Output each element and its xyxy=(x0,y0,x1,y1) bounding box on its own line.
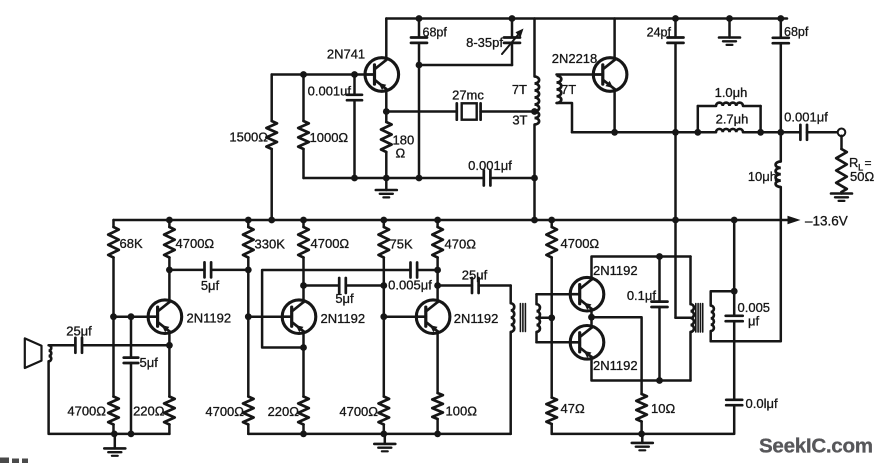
node: gnd wire 5uf xyxy=(128,431,135,438)
capacitor 0.01uf xyxy=(726,341,778,411)
capacitor 68pf left xyxy=(411,19,447,179)
capacitor 0.001uf output xyxy=(784,110,838,140)
svg-text:470Ω: 470Ω xyxy=(445,237,477,252)
capacitor 0.1uf xyxy=(627,257,668,381)
capacitor 25uf mic xyxy=(49,324,170,353)
transformer T1 core xyxy=(520,304,525,332)
svg-text:5μf: 5μf xyxy=(201,278,220,293)
svg-text:Ω: Ω xyxy=(396,146,406,161)
inductor 10uh xyxy=(748,132,781,187)
transistor Q2 2N1192 xyxy=(282,300,365,334)
capacitor 5uf shunt xyxy=(124,317,158,434)
capacitor 68pf right xyxy=(773,19,809,133)
node: gnd wire 10ohm xyxy=(638,431,645,438)
wire: Q1 emitter xyxy=(168,333,171,345)
svg-text:4700Ω: 4700Ω xyxy=(67,404,106,419)
resistor 4700 bottom3 xyxy=(339,397,389,434)
svg-text:4700Ω: 4700Ω xyxy=(561,236,600,251)
svg-text:10Ω: 10Ω xyxy=(651,401,675,416)
resistor 47 xyxy=(546,398,585,434)
capacitor 24pf xyxy=(647,19,684,133)
svg-text:R: R xyxy=(849,155,858,170)
capacitor 5uf coupling A xyxy=(169,262,248,293)
capacitor 0.005uf nfb xyxy=(388,263,437,293)
wire: x675 feed to T2 center tap xyxy=(676,132,691,317)
resistor 4700 bottom2 xyxy=(205,397,253,434)
svg-text:SeekIC.com: SeekIC.com xyxy=(759,435,873,458)
svg-text:27mc: 27mc xyxy=(452,88,484,103)
transformer T2 secondary xyxy=(711,291,735,341)
node: 0.1uf top xyxy=(656,253,663,260)
svg-text:75K: 75K xyxy=(390,237,413,252)
wire: bias column lower xyxy=(550,318,553,398)
wire: right ground bus xyxy=(552,406,735,434)
resistor 4700 collector1 xyxy=(164,220,214,270)
wire: Q4 emitter xyxy=(590,311,593,318)
svg-text:2N1192: 2N1192 xyxy=(593,358,638,373)
wire: T1 bottom to Q5 base xyxy=(537,341,571,344)
node: inductor pair left xyxy=(694,129,701,136)
wire: T1 center tap xyxy=(537,317,552,320)
node: base junction 0.001uf xyxy=(351,71,358,78)
microphone xyxy=(25,338,51,368)
resistor RL 50ohm xyxy=(836,136,874,192)
crystal 27mc xyxy=(386,88,534,120)
power arrow -13.6V xyxy=(788,214,848,229)
ground left xyxy=(104,434,125,456)
resistor 330K xyxy=(243,220,285,270)
svg-text:10μh: 10μh xyxy=(748,169,777,184)
node: Q1 collector junction xyxy=(166,267,173,274)
svg-text:=: = xyxy=(865,156,872,170)
resistor 220 emitter1 xyxy=(133,397,175,434)
inductor 2.7uh xyxy=(716,112,749,133)
wire: Q3 collector upper xyxy=(436,270,439,286)
wire: Q2 collector xyxy=(302,286,305,301)
node: Q3 collector 0.005 junction xyxy=(434,267,441,274)
node: push-pull midpoint xyxy=(588,314,595,321)
wire: Q5 collector xyxy=(590,317,593,326)
capacitor 5uf coupling B xyxy=(304,278,384,306)
wire: 2N741 emitter xyxy=(385,91,388,112)
node: y178 at 0.001uf xyxy=(351,175,358,182)
wire: Q2 emitter xyxy=(302,333,305,347)
node: 68pf bottom junction xyxy=(416,62,423,69)
svg-text:2N1192: 2N1192 xyxy=(321,311,366,326)
resistor 470 xyxy=(432,220,476,270)
wire: modulation column upper xyxy=(733,220,736,291)
svg-text:–13.6V: –13.6V xyxy=(805,214,848,229)
inductor osc secondary 7T xyxy=(557,76,577,103)
node: bias tap junction xyxy=(548,314,555,321)
wire: y132 line xyxy=(572,131,800,134)
transistor Q5 2N1192 xyxy=(570,326,637,374)
wire: 10uh down to T2 xyxy=(711,187,781,341)
svg-text:2N1192: 2N1192 xyxy=(593,263,638,278)
resistor 1500ohm xyxy=(229,75,277,221)
wire: Q2 emitter lower xyxy=(302,348,305,397)
wire: Q5 emitter xyxy=(592,359,691,381)
wire: Q4 collector xyxy=(592,257,691,278)
wire: -13.6V rail xyxy=(114,219,790,222)
node: rail junction 1500 xyxy=(268,217,275,224)
svg-text:0.005μf: 0.005μf xyxy=(388,278,432,293)
watermark SeekIC.com xyxy=(759,435,873,458)
node: 68pf right bottom xyxy=(777,129,784,136)
svg-text:4700Ω: 4700Ω xyxy=(311,236,350,251)
svg-text:2N2218: 2N2218 xyxy=(552,51,598,66)
svg-text:68pf: 68pf xyxy=(784,25,809,39)
inductor 1.0uh xyxy=(698,85,761,132)
wire: 2N2218 collector xyxy=(613,19,616,59)
caption fragment bottom-left xyxy=(0,458,28,463)
node: rail junction x675 xyxy=(672,217,679,224)
wire: mid ground bus xyxy=(248,433,510,436)
wire: 2N741 collector xyxy=(385,19,388,59)
ground mid xyxy=(374,434,395,451)
svg-text:4700Ω: 4700Ω xyxy=(205,404,244,419)
node: output terminal xyxy=(838,129,846,137)
svg-text:50Ω: 50Ω xyxy=(850,169,874,184)
ground RL xyxy=(831,192,852,201)
svg-text:0.001uf: 0.001uf xyxy=(308,84,352,99)
wire: 330K column xyxy=(247,270,250,317)
svg-text:7T: 7T xyxy=(512,82,527,97)
resistor 100 emitter3 xyxy=(432,393,477,434)
svg-text:25μf: 25μf xyxy=(462,268,488,283)
inductor osc primary 3T xyxy=(512,112,539,179)
transformer T1 primary xyxy=(511,286,515,434)
node: y178 at 68pf column xyxy=(416,175,423,182)
node: emitter on y132 xyxy=(611,129,618,136)
wire: nfb loop xyxy=(262,270,410,348)
resistor 75K xyxy=(379,220,413,286)
node: rail junction coil xyxy=(531,217,538,224)
wire: Q1 base xyxy=(114,315,149,318)
ground top xyxy=(719,19,740,45)
node: 0.1uf bottom xyxy=(656,377,663,384)
svg-text:220Ω: 220Ω xyxy=(268,404,300,419)
svg-text:2N1192: 2N1192 xyxy=(187,311,232,326)
capacitor 8-35pf variable xyxy=(466,19,523,66)
node: rail junction at top ground xyxy=(726,15,733,22)
resistor 180ohm xyxy=(381,112,414,179)
svg-text:330K: 330K xyxy=(255,237,286,252)
svg-text:5μf: 5μf xyxy=(335,291,354,306)
transformer T1 secondary xyxy=(537,294,540,342)
node: rail junction at 8-35pf xyxy=(509,15,516,22)
svg-text:2N1192: 2N1192 xyxy=(454,311,499,326)
svg-text:μf: μf xyxy=(748,314,759,329)
capacitor 25uf coupling xyxy=(438,268,511,294)
capacitor 0.005uf output xyxy=(726,291,770,341)
svg-text:24pf: 24pf xyxy=(647,26,672,40)
svg-text:0.1μf: 0.1μf xyxy=(627,288,657,303)
svg-text:4700Ω: 4700Ω xyxy=(176,236,215,251)
wire: mic ground lead xyxy=(49,361,170,434)
wire: Q3 collector xyxy=(436,286,439,301)
wire: top ground rail xyxy=(386,17,787,20)
node: rail junction mod xyxy=(731,217,738,224)
wire: secondary bottom jog xyxy=(557,103,573,132)
resistor 10 xyxy=(636,394,675,434)
node: 24pf bottom xyxy=(672,129,679,136)
node: emitter junction xyxy=(383,108,390,115)
node: gnd wire 75K xyxy=(380,431,387,438)
wire: 2N2218 base xyxy=(557,73,594,76)
svg-text:0.0lμf: 0.0lμf xyxy=(746,396,778,411)
node: gnd wire Q2e xyxy=(300,431,307,438)
svg-text:68K: 68K xyxy=(120,236,143,251)
wire: Q1 collector xyxy=(168,270,171,300)
svg-text:100Ω: 100Ω xyxy=(446,404,478,419)
node: rail junction 4700b xyxy=(300,217,307,224)
wire: Q3 base xyxy=(384,315,417,318)
svg-text:25μf: 25μf xyxy=(66,324,92,339)
node: T2 secondary top junction xyxy=(731,288,738,295)
transistor 2N2218 xyxy=(552,51,627,91)
wire: T1 top to Q4 base xyxy=(537,293,571,296)
wire: 2N2218 emitter xyxy=(613,91,616,132)
node: rail junction 75K xyxy=(380,217,387,224)
resistor 4700 collector2 xyxy=(298,220,349,286)
node: inductor pair right xyxy=(757,129,764,136)
resistor 220 emitter2 xyxy=(268,397,309,434)
transistor 2N741 xyxy=(327,47,399,92)
resistor 4700 bottom1 xyxy=(67,397,118,434)
node: rail junction 330K xyxy=(245,217,252,224)
node: 68K base junction xyxy=(110,313,117,320)
node: rail junction 4700 xyxy=(166,217,173,224)
node: Q3 collector 25uf junction xyxy=(434,282,441,289)
svg-text:5μf: 5μf xyxy=(140,355,159,370)
capacitor 0.001uf xyxy=(308,75,362,179)
svg-text:3T: 3T xyxy=(512,113,527,128)
wire: coil column to rail xyxy=(533,178,536,220)
node: Q2 collector junction xyxy=(300,282,307,289)
node: 5uf shunt top xyxy=(128,313,135,320)
transformer T2 core xyxy=(696,304,703,333)
ground under 180ohm xyxy=(376,178,397,197)
wire: 2N741 base line xyxy=(272,73,365,76)
svg-text:2N741: 2N741 xyxy=(327,47,365,62)
node: rail junction 470 xyxy=(434,217,441,224)
svg-text:8-35pf: 8-35pf xyxy=(466,35,503,50)
node: rail junction at right 68pf xyxy=(777,15,784,22)
transistor Q4 2N1192 xyxy=(570,263,637,311)
svg-text:4700Ω: 4700Ω xyxy=(339,404,378,419)
wire: midpoint to 10ohm xyxy=(592,317,642,394)
node: Q1 emitter mic junction xyxy=(166,342,173,349)
wire: Q2 base xyxy=(248,315,282,318)
svg-text:0.001μf: 0.001μf xyxy=(784,110,828,125)
node: rail junction 4700c xyxy=(548,217,555,224)
node: 75K 5uf junction xyxy=(380,282,387,289)
transformer T2 primary xyxy=(691,257,694,381)
transistor Q1 2N1192 xyxy=(148,300,231,334)
node: rail junction at 24pf xyxy=(672,15,679,22)
inductor osc primary 7T xyxy=(512,19,539,112)
wire: Q1 emitter lower xyxy=(168,345,171,396)
svg-text:1500Ω: 1500Ω xyxy=(229,130,268,145)
svg-text:1.0μh: 1.0μh xyxy=(715,85,748,100)
resistor 1000ohm xyxy=(298,75,348,179)
node: y178 at 180ohm xyxy=(383,175,390,182)
node: Q2 base junction xyxy=(245,313,252,320)
capacitor 0.001uf feedback xyxy=(468,158,512,186)
node: Q3 base junction xyxy=(380,313,387,320)
node: rail junction at 68pf xyxy=(416,15,423,22)
wire: y178 line xyxy=(304,177,535,180)
svg-text:47Ω: 47Ω xyxy=(561,401,585,416)
transistor Q3 2N1192 xyxy=(416,300,498,334)
wire: Q3 emitter xyxy=(436,333,439,393)
node: 330K 5uf junction xyxy=(245,267,252,274)
node: coil tap xyxy=(531,108,538,115)
node: base junction 1000ohm xyxy=(300,71,307,78)
wire: 75K column xyxy=(383,286,386,317)
svg-text:68pf: 68pf xyxy=(423,26,448,40)
node: gnd wire 4700 xyxy=(111,431,118,438)
resistor 68K xyxy=(108,220,143,317)
wire: 330K column lower xyxy=(247,317,250,397)
wire: 75K column lower xyxy=(383,317,386,397)
ground right xyxy=(632,434,653,450)
node: y178 at coil column xyxy=(531,175,538,182)
svg-text:1000Ω: 1000Ω xyxy=(310,130,349,145)
node: gnd wire Q3e xyxy=(434,431,441,438)
node: Q2 emitter junction xyxy=(300,344,307,351)
svg-text:0.001μf: 0.001μf xyxy=(468,158,512,173)
svg-text:220Ω: 220Ω xyxy=(133,404,165,419)
svg-text:7T: 7T xyxy=(561,82,576,97)
wire: 68pf to 8-35pf xyxy=(419,64,512,67)
svg-text:2.7μh: 2.7μh xyxy=(716,112,749,127)
resistor 4700 bias xyxy=(546,220,599,318)
wire: 68K column lower xyxy=(112,317,115,397)
